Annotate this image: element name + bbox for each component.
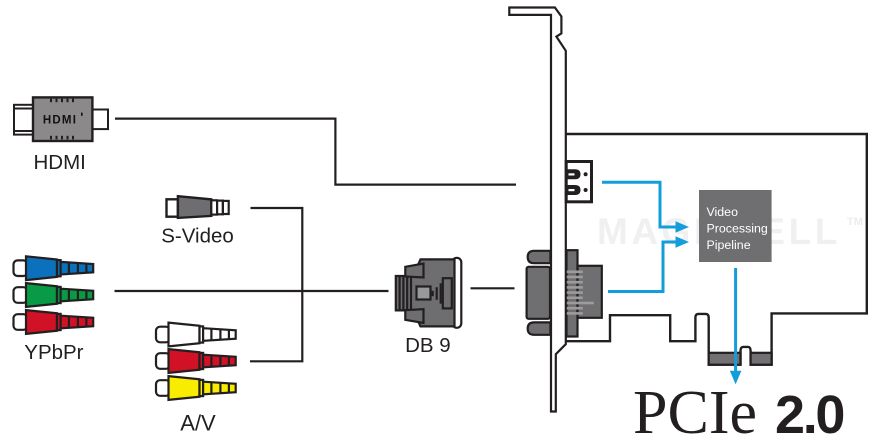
svg-text:PCIe: PCIe xyxy=(633,379,757,447)
svg-text:TM: TM xyxy=(847,216,863,228)
svg-text:HDMI: HDMI xyxy=(34,151,86,174)
svg-text:Processing: Processing xyxy=(707,221,768,235)
svg-text:A/V: A/V xyxy=(180,411,216,436)
svg-text:DB 9: DB 9 xyxy=(405,334,451,357)
svg-text:YPbPr: YPbPr xyxy=(24,341,83,364)
svg-text:S-Video: S-Video xyxy=(161,225,234,248)
svg-text:HDMI: HDMI xyxy=(43,115,77,127)
svg-text:Pipeline: Pipeline xyxy=(707,238,751,252)
svg-text:Video: Video xyxy=(707,205,739,219)
svg-text:2.0: 2.0 xyxy=(775,385,843,445)
